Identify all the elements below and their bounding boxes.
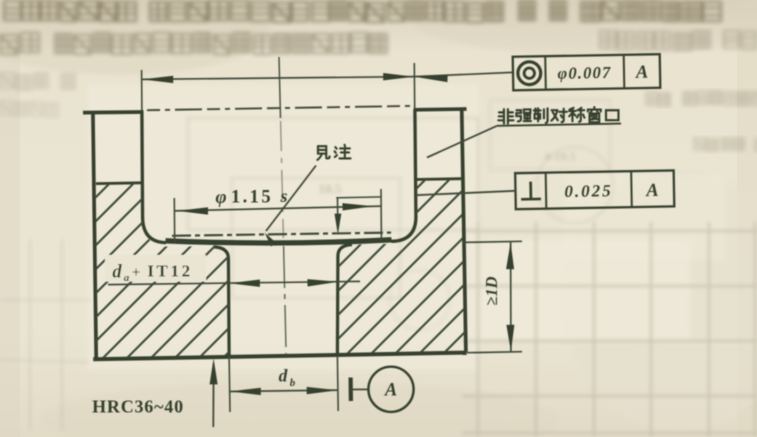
cavity left wall with bottom fillet bbox=[142, 112, 166, 242]
concentricity feature control frame bbox=[513, 54, 661, 90]
window sill left bbox=[96, 181, 142, 185]
svg-text:HRC36~40: HRC36~40 bbox=[92, 397, 184, 417]
svg-text:A: A bbox=[645, 181, 659, 201]
svg-text:4-10.5: 4-10.5 bbox=[545, 149, 576, 163]
bleed-through text from reverse page bbox=[4, 1, 721, 22]
svg-text:φ: φ bbox=[215, 187, 226, 208]
lower hole left wall bbox=[214, 247, 230, 356]
window sill right bbox=[416, 177, 462, 181]
top blank phantom line bbox=[147, 106, 413, 110]
top bore dimension with leader to concentricity frame bbox=[141, 70, 143, 111]
perpendicularity feature control frame bbox=[515, 170, 674, 209]
dimension d_a + IT12 bbox=[105, 255, 206, 282]
dimension d_b (datum feature) bbox=[228, 356, 231, 413]
cavity right wall with bottom fillet bbox=[392, 110, 416, 241]
svg-text:+: + bbox=[132, 265, 141, 281]
svg-text:φ0.007: φ0.007 bbox=[557, 63, 611, 83]
svg-text:A: A bbox=[635, 63, 649, 83]
label: see note (Chinese) with leader arrow bbox=[317, 146, 329, 160]
outer right wall bbox=[462, 108, 466, 352]
svg-text:IT12: IT12 bbox=[147, 262, 192, 281]
bottom face bbox=[93, 353, 466, 360]
faint bleed-through table grid bbox=[0, 100, 757, 437]
vertical centreline bbox=[279, 57, 281, 118]
svg-text:0.025: 0.025 bbox=[564, 181, 613, 201]
top face of left wall bbox=[83, 110, 144, 114]
svg-text:s: s bbox=[279, 186, 287, 206]
svg-text:A: A bbox=[384, 381, 397, 401]
lower hole right wall bbox=[337, 245, 352, 356]
dimension phi 1.15s bbox=[173, 198, 175, 244]
auxiliary pointer onto floor line bbox=[336, 196, 381, 199]
test-piece strip on cavity floor bbox=[166, 240, 392, 243]
svg-text:d: d bbox=[279, 366, 288, 386]
datum A symbol bbox=[349, 378, 353, 402]
svg-text:b: b bbox=[290, 377, 296, 389]
svg-text:d: d bbox=[112, 263, 122, 283]
svg-text:1.15: 1.15 bbox=[231, 188, 273, 208]
phantom (dash-dot) line of part on floor bbox=[172, 233, 391, 236]
svg-text:a: a bbox=[124, 272, 130, 284]
svg-text:≥1D: ≥1D bbox=[482, 276, 501, 305]
label: non-mandatory symmetric window (Chinese) bbox=[427, 107, 621, 157]
dimension >=1D (wall depth) bbox=[464, 241, 522, 242]
svg-text:10.5: 10.5 bbox=[319, 181, 342, 196]
outer left wall bbox=[93, 111, 96, 358]
leader of perpendicularity frame bbox=[416, 191, 516, 195]
top face of right wall bbox=[414, 107, 467, 112]
